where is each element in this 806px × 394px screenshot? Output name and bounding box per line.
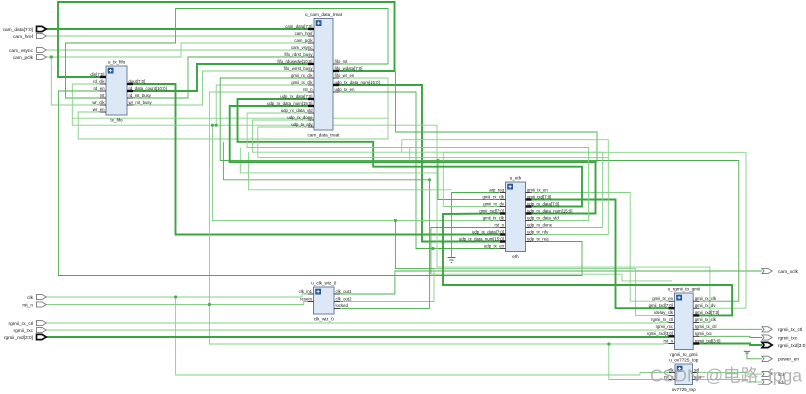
svg-text:gmii_rx_clk: gmii_rx_clk: [483, 194, 505, 199]
wire udp_rx_data_num bus: [230, 106, 596, 214]
svg-text:rst: rst: [100, 93, 106, 98]
svg-text:cam_vsync: cam_vsync: [9, 49, 34, 54]
node clk junction: [174, 295, 177, 298]
wire gmii_rx_dv net: [443, 152, 746, 308]
wire sda net: [697, 380, 762, 383]
wire fifo_rst to rst: [66, 9, 389, 99]
svg-text:clk_in1: clk_in1: [299, 289, 313, 294]
wire clk_out2 to idelay_clk: [340, 269, 669, 316]
svg-text:clk_wiz_0: clk_wiz_0: [314, 317, 334, 322]
port sda: [762, 379, 786, 385]
port rgmii_rxd: [4, 334, 46, 340]
svg-text:CSDN-@电路_fpga: CSDN-@电路_fpga: [650, 366, 802, 387]
svg-text:udp_tx_data_num[15:0]: udp_tx_data_num[15:0]: [335, 80, 380, 85]
wire gmii_txd bus: [532, 200, 669, 309]
svg-text:clk_out1: clk_out1: [336, 289, 353, 294]
node gmii_rx_clk junction: [436, 159, 439, 162]
wire udp_rx_data bus: [238, 99, 583, 207]
svg-text:rd_en: rd_en: [94, 86, 106, 91]
svg-text:rgmii_rxd[3:0]: rgmii_rxd[3:0]: [647, 331, 673, 336]
svg-text:fifo_rdrst_busy: fifo_rdrst_busy: [284, 52, 313, 57]
wire clk port net: [46, 294, 307, 297]
svg-text:gmii_rxd[7:0]: gmii_rxd[7:0]: [479, 208, 504, 213]
svg-text:din[7:0]: din[7:0]: [90, 72, 104, 77]
svg-text:rgmii_rxc: rgmii_rxc: [14, 328, 34, 334]
svg-text:udp_rx_done: udp_rx_done: [287, 115, 313, 120]
port rgmii_txc: [762, 335, 798, 341]
wire rd_en long net: [58, 91, 582, 276]
svg-text:udp_rx_data_vld: udp_rx_data_vld: [527, 215, 559, 220]
wire gmii_rx_clk branch cam: [220, 78, 308, 161]
wire net x395 drop: [395, 221, 434, 269]
svg-text:rst_n: rst_n: [22, 302, 33, 308]
svg-text:gmii_rx_dv: gmii_rx_dv: [483, 201, 505, 206]
svg-text:udp_tx_data_num[15:0]: udp_tx_data_num[15:0]: [459, 236, 504, 241]
module u_eth: [459, 176, 573, 260]
module u_clk_wiz_0: [299, 281, 353, 322]
svg-text:eth: eth: [512, 254, 519, 259]
wire riser x409: [409, 148, 411, 161]
node rst_n rgmii junction: [607, 342, 610, 345]
svg-text:fifo_wdata[7:0]: fifo_wdata[7:0]: [335, 66, 363, 71]
wire gmii_rx_clk net: [220, 161, 739, 302]
wire rgmii_rxd bus: [46, 335, 669, 338]
svg-text:gmii_tx_clk: gmii_tx_clk: [695, 317, 717, 322]
svg-text:rgmii_txd[3:0]: rgmii_txd[3:0]: [695, 338, 721, 343]
node locked junction: [428, 178, 431, 181]
svg-text:locked: locked: [336, 303, 349, 308]
svg-text:ov7725_top: ov7725_top: [672, 387, 696, 392]
wire gmii_tx_clk net: [72, 84, 710, 322]
wire clk ov7725 branch: [176, 297, 669, 375]
svg-text:gmii_tx_en: gmii_tx_en: [652, 296, 673, 301]
svg-text:gmii_txd[7:0]: gmii_txd[7:0]: [527, 194, 551, 199]
wire rd_data_count to fifo_rdusedw bus: [133, 64, 308, 91]
svg-text:udp_tx_rdy: udp_tx_rdy: [527, 229, 549, 234]
svg-text:gmii_txd[7:0]: gmii_txd[7:0]: [649, 303, 673, 308]
wire riser x223: [222, 142, 224, 180]
svg-text:gmii_tx_clk: gmii_tx_clk: [483, 215, 505, 220]
port cam_vsync: [9, 47, 46, 53]
svg-text:gmii_tx_en: gmii_tx_en: [527, 187, 548, 192]
wire locked net: [223, 180, 429, 309]
wire cam_href net: [46, 35, 308, 37]
svg-text:rgmii_txc: rgmii_txc: [778, 335, 798, 341]
svg-text:udp_tx_data[7:0]: udp_tx_data[7:0]: [472, 229, 504, 234]
svg-text:udp_tx_rdy: udp_tx_rdy: [291, 122, 313, 127]
wire udp_tx_data_num bus: [339, 85, 499, 242]
wire gmii_tx_clk branch cam: [216, 85, 308, 125]
svg-text:cam_data_treat: cam_data_treat: [308, 133, 341, 138]
wire net under tx_fifo: [73, 117, 389, 119]
node gmii_tx_clk junction a: [215, 124, 218, 127]
wire net y190: [248, 152, 451, 190]
wire arp_req to gnd: [452, 193, 500, 258]
svg-text:rgmii_to_gmii: rgmii_to_gmii: [670, 352, 697, 357]
wire rgmii_rx_ctl net: [46, 321, 669, 324]
svg-text:rgmii_rxd[3:0]: rgmii_rxd[3:0]: [4, 335, 33, 341]
node gmii_tx_clk junction b: [211, 124, 214, 127]
wire gmii_rx_clk branch eth: [438, 161, 499, 200]
svg-text:udp_rx_data_num[15:0]: udp_rx_data_num[15:0]: [527, 208, 572, 213]
wire udp_tx_rdy net: [402, 140, 609, 235]
vcc power symbol: [744, 351, 750, 353]
module u_ov7725_top: [664, 358, 702, 393]
wire cam_pclk net: [46, 43, 308, 57]
wire rd_rst_busy to fifo_rdrst_busy: [133, 57, 308, 98]
svg-text:rgmii_txd[3:0]: rgmii_txd[3:0]: [778, 343, 806, 349]
wire rst_n up branch: [209, 92, 308, 305]
svg-text:gmii_rx_clk: gmii_rx_clk: [291, 73, 313, 78]
wire line y274: [431, 274, 672, 281]
svg-text:rgmii_txc: rgmii_txc: [695, 331, 713, 336]
svg-text:udp_rx_data_vld: udp_rx_data_vld: [281, 108, 313, 113]
node junction x395: [394, 219, 397, 222]
wire fifo_wdata to din bus: [58, 2, 395, 77]
wire scl net: [697, 373, 762, 375]
svg-text:u_cam_data_treat: u_cam_data_treat: [305, 12, 343, 17]
wire udp_rx_done net: [252, 120, 602, 228]
wire gmii_tx_clk branch eth: [213, 125, 500, 220]
svg-text:u_clk_wiz_0: u_clk_wiz_0: [311, 281, 336, 286]
wire rgmii_rxc net: [46, 328, 669, 331]
svg-text:gmii_rxd[7:0]: gmii_rxd[7:0]: [695, 310, 720, 315]
port rgmii_txd: [762, 342, 806, 348]
svg-text:wr_rst_busy: wr_rst_busy: [129, 100, 153, 105]
module u_tx_fifo: [90, 60, 166, 123]
svg-text:cam_xclk: cam_xclk: [778, 269, 799, 275]
wire net y173: [240, 148, 437, 173]
svg-text:resetn: resetn: [300, 296, 313, 301]
svg-text:tx_fifo: tx_fifo: [110, 118, 123, 123]
port rgmii_rx_ctl: [8, 320, 46, 326]
svg-text:rd_data_count[10:0]: rd_data_count[10:0]: [129, 86, 167, 91]
port scl: [762, 371, 784, 377]
wire wr_rst_busy to fifo_wrrst_busy: [133, 71, 308, 105]
wire gmii_tx_en net: [532, 193, 669, 302]
port rst_n: [22, 302, 46, 308]
wire rst_n port net: [46, 302, 307, 305]
wire eth rst_n net: [431, 228, 499, 275]
svg-text:gmii_tx_clk: gmii_tx_clk: [291, 80, 313, 85]
svg-text:rst_n: rst_n: [663, 338, 673, 343]
wire rst_n ov7725 branch: [609, 344, 669, 380]
wire net y132: [396, 72, 598, 163]
port cam_href: [13, 33, 46, 39]
svg-text:cam_data[7:0]: cam_data[7:0]: [3, 27, 33, 33]
svg-text:udp_tx_en: udp_tx_en: [484, 243, 505, 248]
svg-text:rgmii_rx_ctl: rgmii_rx_ctl: [651, 317, 673, 322]
svg-text:rgmii_tx_ctl: rgmii_tx_ctl: [695, 324, 717, 329]
ground symbol: [448, 258, 456, 263]
node cam_pclk junction: [50, 55, 53, 58]
svg-text:idelay_clk: idelay_clk: [654, 310, 674, 315]
svg-text:u_tx_fifo: u_tx_fifo: [108, 60, 126, 65]
svg-text:u_rgmii_to_gmii: u_rgmii_to_gmii: [668, 287, 700, 292]
wire rgmii_txc net: [699, 336, 762, 337]
svg-text:rst_n: rst_n: [303, 87, 313, 92]
port cam_data: [3, 26, 47, 32]
svg-text:wr_en: wr_en: [93, 107, 105, 112]
svg-text:clk_out2: clk_out2: [336, 296, 353, 301]
port cam_xclk: [762, 268, 799, 274]
port cam_pclk: [13, 54, 46, 60]
wire power_en net: [747, 353, 762, 359]
port rgmii_tx_ctl: [762, 327, 802, 333]
svg-text:cam_href: cam_href: [295, 31, 314, 36]
svg-text:cam_pclk: cam_pclk: [294, 38, 313, 43]
wire udp_rx_data_vld net: [247, 113, 588, 221]
svg-text:udp_rx_data[7:0]: udp_rx_data[7:0]: [527, 201, 559, 206]
svg-text:gmii_rx_dv: gmii_rx_dv: [695, 303, 717, 308]
node rst_n junction: [208, 303, 211, 306]
svg-text:rst_n: rst_n: [494, 222, 504, 227]
wire rgmii_txd bus: [699, 344, 762, 346]
wire rgmii_tx_ctl net: [699, 328, 762, 330]
module u_cam_data_treat: [267, 12, 380, 138]
svg-text:fifo_wr_en: fifo_wr_en: [335, 73, 355, 78]
wire cam_vsync net: [46, 49, 308, 51]
port rgmii_rxc: [14, 327, 47, 333]
svg-text:rgmii_rx_ctl: rgmii_rx_ctl: [8, 321, 33, 327]
wire udp_tx_en net: [339, 92, 499, 249]
wire udp_tx_rdy west: [258, 127, 609, 157]
svg-text:fifo_rst: fifo_rst: [335, 59, 349, 64]
svg-text:udp_rx_data_num[15:0]: udp_rx_data_num[15:0]: [267, 101, 312, 106]
port clk: [27, 294, 46, 300]
svg-text:gmii_rx_clk: gmii_rx_clk: [695, 296, 717, 301]
svg-text:dout[7:0]: dout[7:0]: [129, 79, 146, 84]
svg-text:rd_clk: rd_clk: [93, 79, 105, 84]
svg-text:cam_pclk: cam_pclk: [13, 55, 34, 61]
wire cam_data[7:0] bus: [46, 28, 308, 30]
svg-text:udp_tx_req: udp_tx_req: [527, 236, 549, 241]
svg-text:fifo_rdusedw[10:0]: fifo_rdusedw[10:0]: [277, 59, 312, 64]
svg-text:rd_rst_busy: rd_rst_busy: [129, 93, 152, 98]
node junction x433: [431, 247, 434, 250]
svg-text:cam_vsync: cam_vsync: [291, 45, 313, 50]
wire cam_pclk to wr_clk: [51, 57, 100, 105]
svg-text:cam_data[7:0]: cam_data[7:0]: [285, 24, 312, 29]
wire fifo_wr_en to wr_en: [78, 78, 388, 139]
svg-text:u_eth: u_eth: [510, 176, 522, 181]
svg-text:rgmii_tx_ctl: rgmii_tx_ctl: [778, 327, 802, 333]
svg-text:wr_clk: wr_clk: [92, 100, 105, 105]
svg-text:clk: clk: [27, 295, 33, 301]
svg-text:arp_req: arp_req: [489, 187, 504, 192]
svg-text:u_ov7725_top: u_ov7725_top: [669, 358, 699, 363]
svg-text:fifo_wrrst_busy: fifo_wrrst_busy: [284, 66, 314, 71]
svg-text:power_en: power_en: [778, 357, 799, 363]
svg-text:udp_rx_done: udp_rx_done: [527, 222, 553, 227]
module u_rgmii_to_gmii: [647, 287, 721, 358]
wire dout to udp_tx_data bus: [133, 84, 499, 235]
wire rst_n down branch: [209, 305, 668, 345]
port power_en: [762, 356, 799, 362]
svg-text:rgmii_rxc: rgmii_rxc: [656, 324, 674, 329]
wire clk_out1 to cam_xclk: [340, 271, 762, 294]
svg-text:cam_href: cam_href: [13, 34, 34, 40]
wire gmii_rxd bus: [443, 214, 732, 316]
svg-text:udp_rx_data[7:0]: udp_rx_data[7:0]: [280, 94, 312, 99]
svg-text:udp_tx_en: udp_tx_en: [335, 87, 356, 92]
